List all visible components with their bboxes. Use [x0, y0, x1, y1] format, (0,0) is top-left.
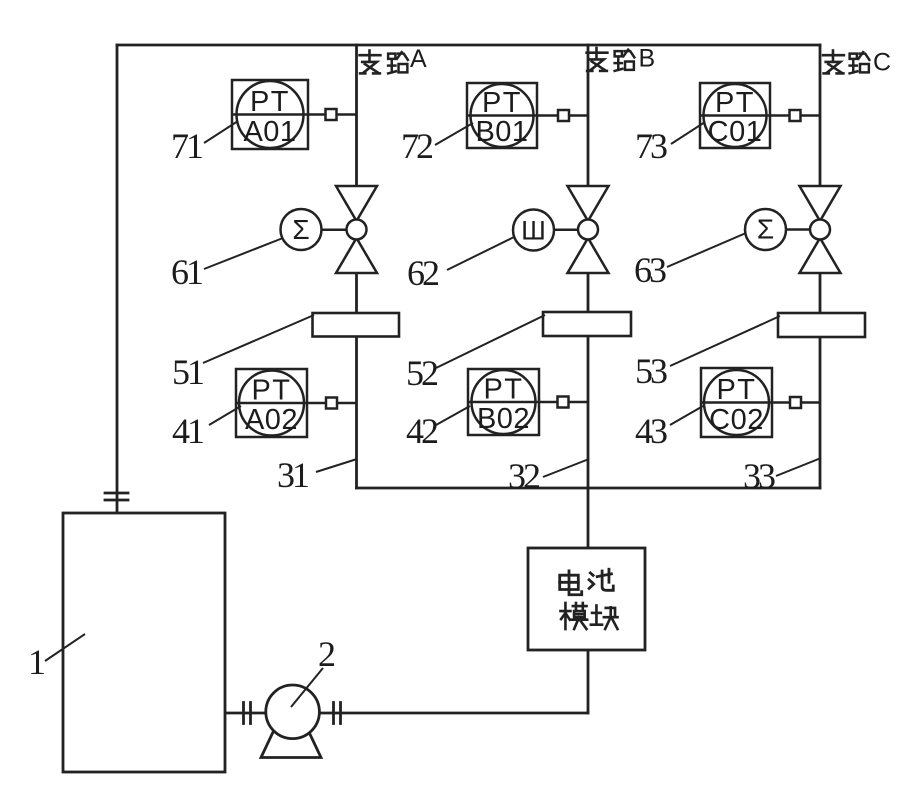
tank 1	[63, 513, 225, 772]
svg-text:Σ: Σ	[292, 214, 309, 245]
pump 2 pedestal	[261, 730, 321, 758]
svg-text:51: 51	[172, 352, 203, 392]
flange pair right of pump	[334, 703, 341, 724]
leader line 61	[204, 238, 283, 269]
valve actuator motor 62	[513, 210, 579, 251]
leader line 52	[436, 315, 545, 368]
wire: branch C vertical	[819, 45, 822, 488]
svg-text:PT: PT	[483, 374, 523, 406]
pressure-temperature sensor PT B02 (42)	[468, 369, 588, 435]
svg-text:31: 31	[277, 455, 308, 495]
wire: branch A vertical	[355, 45, 358, 488]
branch label 支路B	[587, 45, 656, 73]
battery module box	[528, 548, 645, 650]
svg-text:A02: A02	[245, 404, 298, 436]
svg-text:73: 73	[635, 126, 667, 166]
svg-text:2: 2	[318, 634, 335, 674]
leader line 63	[667, 233, 746, 267]
svg-text:Ш: Ш	[521, 216, 546, 246]
svg-text:PT: PT	[482, 87, 522, 119]
leader line 71	[204, 121, 238, 143]
battery module text 模块	[560, 603, 617, 629]
svg-text:61: 61	[171, 252, 202, 292]
svg-text:72: 72	[401, 126, 433, 166]
branch label 支路C	[823, 49, 891, 77]
svg-text:B01: B01	[475, 116, 528, 148]
valve actuator motor 63	[745, 209, 811, 250]
flow sensor 53	[778, 313, 865, 337]
svg-text:53: 53	[635, 351, 667, 391]
wire: left return riser	[116, 45, 119, 513]
pressure-temperature sensor PT B01 (72)	[467, 83, 588, 148]
leader line 32	[543, 459, 589, 477]
leader line 31	[316, 459, 357, 472]
svg-text:42: 42	[406, 411, 438, 451]
leader line 2	[291, 668, 323, 707]
flange at tank inlet	[105, 493, 128, 500]
svg-text:A01: A01	[243, 116, 296, 148]
wire: branch B vertical	[587, 45, 590, 548]
leader line 73	[671, 122, 705, 144]
svg-text:63: 63	[634, 250, 666, 290]
pressure-temperature sensor PT C02 (43)	[701, 368, 820, 437]
wire: bottom return pipe to pump	[225, 712, 588, 715]
svg-text:B: B	[639, 45, 656, 73]
wire: bottom collector bus	[357, 487, 821, 490]
svg-text:62: 62	[407, 253, 439, 293]
pressure-temperature sensor PT C01 (73)	[700, 83, 820, 148]
wire: battery module outlet drop	[587, 650, 590, 713]
leader line 51	[203, 315, 314, 363]
branch label 支路A	[360, 45, 427, 73]
flow sensor 52	[543, 312, 631, 336]
svg-text:Σ: Σ	[757, 214, 774, 245]
leader line 43	[670, 406, 703, 425]
control valve branch A	[336, 186, 377, 273]
pump 2 body	[266, 685, 320, 739]
leader line 53	[670, 316, 780, 366]
control valve branch C	[800, 186, 841, 273]
leader line 42	[436, 406, 470, 425]
valve actuator motor 61	[281, 209, 348, 250]
leader line 72	[435, 123, 473, 145]
pressure-temperature sensor PT A02 (41)	[236, 369, 357, 437]
battery module text 电池	[560, 569, 614, 595]
svg-text:41: 41	[172, 411, 203, 451]
pressure-temperature sensor PT A01 (71)	[232, 80, 357, 149]
svg-text:PT: PT	[250, 86, 290, 118]
leader line 1	[45, 634, 85, 661]
wire: top supply bus	[117, 44, 820, 47]
flange pair left of pump	[244, 703, 251, 724]
svg-text:C01: C01	[708, 116, 763, 148]
svg-text:PT: PT	[716, 374, 756, 406]
svg-text:C: C	[873, 49, 891, 77]
svg-text:71: 71	[171, 126, 202, 166]
svg-text:C02: C02	[709, 404, 764, 436]
leader line 33	[776, 458, 821, 476]
control valve branch B	[568, 186, 609, 273]
svg-text:PT: PT	[715, 87, 755, 119]
svg-text:B02: B02	[477, 403, 530, 435]
svg-text:33: 33	[743, 456, 775, 496]
flow sensor 51	[313, 313, 400, 337]
svg-text:32: 32	[508, 456, 540, 496]
leader line 62	[447, 237, 514, 270]
svg-text:1: 1	[28, 642, 44, 682]
svg-text:PT: PT	[251, 375, 291, 407]
svg-text:43: 43	[635, 411, 667, 451]
svg-text:A: A	[410, 45, 427, 73]
leader line 41	[209, 406, 241, 425]
svg-text:52: 52	[406, 353, 438, 393]
